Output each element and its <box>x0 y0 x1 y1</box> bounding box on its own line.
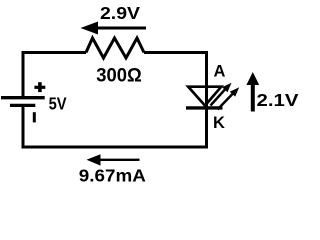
svg-text:5V: 5V <box>49 94 67 114</box>
svg-text:300Ω: 300Ω <box>96 65 142 87</box>
svg-text:K: K <box>213 114 225 132</box>
svg-text:2.1V: 2.1V <box>257 90 299 110</box>
svg-text:2.9V: 2.9V <box>100 3 140 23</box>
svg-text:A: A <box>214 62 226 80</box>
svg-text:9.67mA: 9.67mA <box>79 165 146 185</box>
